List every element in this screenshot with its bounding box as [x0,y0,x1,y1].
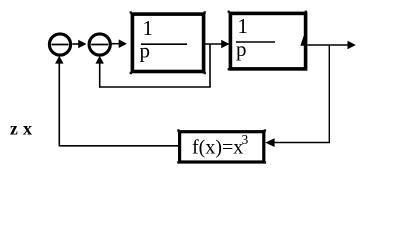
G2 fraction bar [236,41,275,43]
G2 value 1 [238,14,249,38]
G1 value p [140,39,151,63]
svg-text:z: z [10,118,18,138]
block G1 (1/p integrator) [132,14,203,71]
G2 value p [236,37,247,61]
f(x) label [192,132,249,159]
summing junction S1 [49,34,70,55]
svg-text:p: p [236,37,247,61]
inner feedback bottom wire [100,86,211,88]
arrowhead up at G2 output edge [300,36,307,46]
svg-text:1: 1 [238,14,249,38]
outer feedback wire into f(x) block [265,138,330,147]
G1 value 1 [143,16,154,40]
svg-text:3: 3 [242,132,249,147]
summing junction S2 [89,34,110,55]
svg-text:x: x [23,118,32,138]
f(x) output wire left [59,145,178,147]
svg-text:1: 1 [143,16,154,40]
wire S1 to S2 [72,40,86,49]
block f(x)=x^3 [180,132,264,162]
wire G1 to G2 [204,40,230,49]
svg-text:p: p [140,39,151,63]
block G2 (1/p integrator) [230,13,305,69]
outer feedback branch down [328,45,330,142]
output wire from G2 [308,41,356,50]
label z x [10,118,32,138]
G1 fraction bar [141,43,187,45]
feedback wire up into S1 [55,56,63,147]
f(x) corner handles [177,129,266,163]
inner feedback branch down from G1 output [209,44,211,87]
inner feedback wire up into S2 [96,56,104,88]
wire S2 to block G1 [111,39,127,48]
G2 corner handles [228,11,307,71]
svg-text:f(x)=x: f(x)=x [192,137,243,159]
G1 corner handles [130,11,206,74]
